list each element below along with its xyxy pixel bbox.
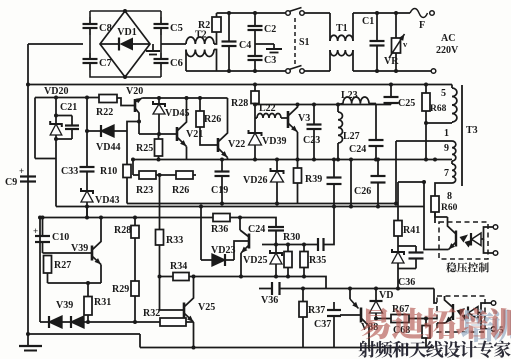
junction R25 bottom <box>157 158 161 162</box>
resistor R10 <box>126 131 128 165</box>
node row wire y104 <box>255 104 297 106</box>
svg-text:R22: R22 <box>96 107 113 118</box>
bus D wire y276 <box>160 276 174 278</box>
junction VD20 top <box>54 96 58 100</box>
resistor R26 <box>199 98 201 111</box>
resistor R25 <box>158 134 160 139</box>
capacitor C5 <box>160 17 162 24</box>
junction VR bottom <box>394 69 398 73</box>
svg-text:R35: R35 <box>309 255 326 266</box>
resistor R30 <box>287 245 289 252</box>
inductor L23 <box>338 104 343 105</box>
junction x87 lineC <box>85 216 89 220</box>
junction x133 <box>131 158 135 162</box>
junction x87 bus97 <box>85 96 89 100</box>
junction R33 bottom <box>158 275 162 279</box>
svg-text:VD25: VD25 <box>243 255 267 266</box>
junction VD26 bottom <box>275 202 279 206</box>
opto1 terminal top <box>493 225 498 230</box>
svg-text:R33: R33 <box>166 235 183 246</box>
svg-text:R31: R31 <box>94 297 111 308</box>
diode VD <box>375 289 377 302</box>
resistor R66 <box>425 319 427 326</box>
optocoupler U2 LED arrows <box>457 308 466 316</box>
capacitor C8 <box>89 17 91 24</box>
wire drop x35 <box>34 98 36 159</box>
junction R28b top <box>133 216 137 220</box>
transformer T3 winding 5-1 <box>451 85 453 89</box>
junction C2 top <box>253 11 257 15</box>
wire busD drop to row288 <box>304 277 326 289</box>
watermark dark text <box>358 341 510 358</box>
junction C24b bottom <box>274 243 278 247</box>
svg-text:C9: C9 <box>5 177 17 188</box>
junction VD44 left <box>85 129 89 133</box>
capacitor C4 <box>228 13 230 42</box>
wire opto1 diode to terminals <box>481 227 493 239</box>
junction x426 bus161 <box>424 158 428 162</box>
zener diode VD43 <box>81 191 93 202</box>
wire C36 pair bottom <box>398 268 416 270</box>
svg-text:R28: R28 <box>114 225 131 236</box>
resistor R32 <box>186 321 194 323</box>
transformer T3 winding 9 <box>452 141 456 161</box>
capacitor C9 polarized <box>20 175 36 177</box>
svg-text:V39: V39 <box>56 300 73 311</box>
svg-text:R27: R27 <box>54 260 71 271</box>
switch S1 bottom contact left <box>286 69 291 74</box>
wire x424 segment <box>423 182 425 207</box>
junction C1 top <box>375 11 379 15</box>
wire 9-7 tap <box>451 161 453 164</box>
svg-text:R10: R10 <box>100 166 117 177</box>
capacitor C10 polarized <box>42 218 44 237</box>
transistor V20 <box>117 98 135 106</box>
wire C37 top stub <box>333 301 335 303</box>
diode VD23 <box>201 259 212 261</box>
capacitor C3 <box>254 60 256 71</box>
bottom bus main y347 <box>140 347 434 349</box>
label 稳压控制 <box>446 262 456 272</box>
junction C3 bottom <box>253 69 257 73</box>
junction R23 R26 node <box>158 173 162 177</box>
resistor R60 <box>434 212 436 223</box>
junction VD43 bottom lineB <box>85 205 89 209</box>
wire ladder x87 <box>86 98 88 168</box>
wire base row V39 <box>43 252 93 254</box>
wire R36 right to V24 collector <box>239 218 241 231</box>
svg-text:5: 5 <box>441 88 446 99</box>
resistor R2 <box>216 13 218 17</box>
wire opto2 feed top <box>434 289 437 304</box>
junction VD25 bottom <box>274 275 278 279</box>
switch S1 bottom contact right <box>300 69 305 74</box>
svg-text:R30: R30 <box>283 232 300 243</box>
varistor VR <box>395 13 397 38</box>
junction R39 top <box>296 158 300 162</box>
capacitor C25 <box>390 85 392 98</box>
junction R36 right <box>238 216 242 220</box>
capacitor C19 <box>221 160 223 172</box>
wire to ground between C2 C3 <box>255 43 274 45</box>
svg-text:C5: C5 <box>170 23 183 34</box>
svg-text:V39: V39 <box>71 243 88 254</box>
svg-text:V36: V36 <box>261 295 278 306</box>
optocoupler U2 diode <box>469 307 479 320</box>
junction riser top <box>38 216 42 220</box>
svg-text:C7: C7 <box>99 58 112 69</box>
wire R36 left drop <box>200 207 202 218</box>
resistor R41 <box>397 182 399 221</box>
resistor R28 second <box>134 218 136 226</box>
svg-text:C25: C25 <box>398 98 415 109</box>
wire R60 into opto <box>435 212 448 217</box>
svg-text:F: F <box>419 20 425 31</box>
svg-text:C26: C26 <box>354 186 371 197</box>
wire T2 secondary left down <box>185 50 187 72</box>
junction VD39 bottom <box>253 158 257 162</box>
wire S1 to T1 bottom <box>304 70 330 72</box>
resistor R34 <box>173 273 189 281</box>
switch S1 top contact left <box>286 11 291 16</box>
switch S1 bottom blade <box>289 66 302 70</box>
svg-text:C10: C10 <box>52 232 69 243</box>
junction VD26 top <box>275 158 279 162</box>
svg-text:VD26: VD26 <box>243 175 267 186</box>
opto2 terminal top <box>491 301 496 306</box>
ground stub at bridge output <box>152 44 154 51</box>
svg-text:VD1: VD1 <box>117 27 136 38</box>
junction R31 top <box>86 281 90 285</box>
svg-text:220V: 220V <box>436 45 459 56</box>
svg-text:R41: R41 <box>403 225 420 236</box>
svg-text:R26: R26 <box>172 185 189 196</box>
wire T3 pin7 bottom to R60 <box>435 183 452 196</box>
wire lineB into opto <box>424 207 439 250</box>
resistor R27 <box>47 273 49 283</box>
svg-text:V20: V20 <box>126 86 143 97</box>
fuse F <box>410 9 428 18</box>
wire R33 column <box>159 175 161 230</box>
mid bus wire y161 <box>133 159 452 161</box>
wire R36 to C24b top <box>240 218 276 228</box>
wire S1 to T1 top <box>304 12 330 14</box>
sub-bus wire y98 <box>143 97 228 99</box>
junction C4 top <box>227 11 231 15</box>
line A wire y205 <box>127 203 396 205</box>
svg-text:VD20: VD20 <box>44 86 68 97</box>
resistor R29 <box>134 296 136 322</box>
junction x334 top <box>332 158 336 162</box>
zener diode VD39 <box>254 118 256 133</box>
junction R26 top <box>198 96 202 100</box>
junction R68 top <box>424 83 428 87</box>
junction C36 row288 <box>396 287 400 291</box>
svg-text:VR: VR <box>384 56 399 67</box>
capacitor inline row244 <box>317 238 319 251</box>
wire opto2 feed bottom <box>426 318 437 320</box>
wire x396 down to lineA <box>395 141 397 204</box>
junction C25 top <box>389 83 393 87</box>
junction V25 emitter bus <box>192 346 196 350</box>
wire opto2 diode to terminals <box>478 303 491 313</box>
junction V20 collector node <box>137 120 141 124</box>
diode V39b <box>62 321 71 323</box>
junction left frame bus2 <box>26 83 30 87</box>
junction bridge bottom <box>123 75 127 79</box>
transistor V25 <box>183 303 186 318</box>
bottom bus left y334 <box>28 333 140 335</box>
junction x396 lineA end <box>394 202 398 206</box>
junction L22 left <box>253 103 257 107</box>
wire x133 stub <box>132 160 134 176</box>
row wire y244 <box>262 244 318 246</box>
junction tap bus161 <box>433 158 437 162</box>
watermark red text <box>361 308 511 340</box>
junction x334 lineB <box>332 205 336 209</box>
optocoupler U1 diode <box>472 233 482 246</box>
diode VD44 <box>87 130 101 132</box>
capacitor C21 <box>71 116 73 126</box>
capacitor C33 <box>80 166 95 168</box>
svg-text:VD: VD <box>379 290 393 301</box>
junction C10 top <box>41 216 45 220</box>
junction C23 top <box>312 103 316 107</box>
svg-text:C23: C23 <box>303 135 320 146</box>
optocoupler U1 LED arrows <box>460 235 469 243</box>
zener diode VD25 <box>275 245 277 254</box>
transformer T3 core <box>461 85 463 186</box>
svg-text:VD43: VD43 <box>95 195 119 206</box>
capacitor C37 <box>333 302 335 310</box>
zener diode VD45 <box>158 98 160 104</box>
svg-text:V22: V22 <box>228 139 245 150</box>
junction C24 bottom <box>374 158 378 162</box>
junction x351 top <box>349 158 353 162</box>
wire T2 primary right up to R2 <box>214 37 217 45</box>
svg-text:7: 7 <box>444 168 449 179</box>
row wire y175 <box>133 174 139 176</box>
svg-text:C3: C3 <box>264 55 276 66</box>
bridge rectifier VD1 diamond <box>100 11 150 77</box>
resistor R37 <box>302 289 304 302</box>
svg-text:VD23: VD23 <box>211 245 235 256</box>
junction L23 left node <box>336 103 340 107</box>
svg-text:VD39: VD39 <box>262 136 286 147</box>
svg-text:C24: C24 <box>248 224 265 235</box>
svg-text:AC: AC <box>441 33 455 44</box>
wire VD20 chain to lineB <box>55 159 57 207</box>
resistor R36 <box>201 217 213 219</box>
opto1 terminal bottom <box>493 251 498 256</box>
resistor R23 <box>139 171 156 179</box>
wire C33 to VD43 <box>86 172 88 192</box>
junction VD45 bottom node <box>157 132 161 136</box>
optocoupler U2 phototransistor <box>452 304 454 320</box>
junction V3 collector <box>296 103 300 107</box>
optocoupler U1 dashed box <box>439 222 488 259</box>
junction VD45 top <box>157 96 161 100</box>
sub bus wire y97 <box>35 97 99 99</box>
switch S1 top blade <box>289 8 302 12</box>
junction R67 right <box>424 317 428 321</box>
junction R35 top <box>302 243 306 247</box>
junction VR top <box>394 11 398 15</box>
svg-text:VD44: VD44 <box>96 142 120 153</box>
wire C2-C3 link <box>254 30 256 56</box>
svg-text:R28: R28 <box>231 98 248 109</box>
wire T2 secondary right down <box>214 50 217 72</box>
optocoupler U2 dashed box <box>437 296 485 332</box>
junction x351 bottom <box>349 205 353 209</box>
wire x87 lineB to lineC <box>86 207 88 218</box>
main bus wire y84 <box>28 84 452 86</box>
svg-text:V25: V25 <box>198 302 215 313</box>
AC terminal bottom <box>431 69 436 74</box>
junction C21 bottom <box>54 137 58 141</box>
svg-text:1: 1 <box>444 128 449 139</box>
row wire y288 <box>259 288 272 290</box>
svg-text:R32: R32 <box>143 308 160 319</box>
capacitor V36 inline <box>271 282 273 295</box>
svg-text:L23: L23 <box>341 90 358 101</box>
svg-text:R34: R34 <box>170 261 187 272</box>
wire bridge to T2 primary <box>161 43 186 45</box>
transformer T1 winding bottom <box>329 50 331 71</box>
bottom bus step <box>139 334 141 348</box>
capacitor C23 <box>313 105 315 125</box>
capacitor C36 <box>415 246 417 253</box>
junction ground node <box>26 332 30 336</box>
svg-text:+: + <box>19 166 24 176</box>
transistor V39 <box>91 246 94 261</box>
transistor V22 <box>217 138 220 152</box>
svg-text:C33: C33 <box>61 166 78 177</box>
resistor R28 <box>254 85 256 92</box>
line C wire y217 <box>40 217 201 219</box>
ground symbol near C2 C3 <box>273 44 275 49</box>
junction R36 left <box>199 205 203 209</box>
svg-text:T1: T1 <box>336 23 348 34</box>
wire x127 drop <box>127 122 139 132</box>
transformer T1 winding top <box>329 13 331 41</box>
transistor V21 <box>176 127 179 141</box>
transformer T3 winding 7 <box>452 164 456 183</box>
junction V39 collector lineC <box>99 216 103 220</box>
svg-text:T3: T3 <box>466 125 478 136</box>
junction R29 bottom <box>133 320 137 324</box>
wire V25 base drop <box>159 277 161 311</box>
svg-text:V3: V3 <box>298 113 310 124</box>
wire T3 pin9 top <box>396 140 452 142</box>
resistor R35 <box>303 245 305 252</box>
line B wire y208 <box>56 206 424 208</box>
transistor V38 <box>360 308 363 323</box>
svg-text:L27: L27 <box>343 131 360 142</box>
capacitor C24 <box>375 104 377 141</box>
capacitor C6 <box>160 53 162 59</box>
svg-text:+: + <box>33 226 38 236</box>
svg-text:R25: R25 <box>136 143 153 154</box>
svg-text:R39: R39 <box>305 174 322 185</box>
junction R28 top <box>253 83 257 87</box>
wire x351 <box>350 160 352 207</box>
capacitor C2 <box>254 13 256 26</box>
junction C4 bottom <box>227 69 231 73</box>
junction VD top <box>374 287 378 291</box>
svg-text:C37: C37 <box>314 319 331 330</box>
inductor L27 <box>337 105 339 113</box>
resistor R33 <box>159 245 161 277</box>
row wire y322 to R32 <box>88 321 160 323</box>
junction C19 top <box>220 158 224 162</box>
opto2 terminal bottom <box>491 327 496 332</box>
wire C36 pair top <box>398 245 416 247</box>
junction L27 bottom <box>336 158 340 162</box>
junction V25 collector <box>192 275 196 279</box>
wire riser x334 row244 <box>324 207 335 245</box>
inductor L22 <box>257 114 281 118</box>
junction R30 bottom <box>286 275 290 279</box>
wire C21 loop top <box>56 115 72 117</box>
capacitor small x334 <box>333 160 335 178</box>
svg-text:C1: C1 <box>362 16 374 27</box>
resistor R26 horizontal <box>176 171 193 179</box>
capacitor C24 second <box>275 231 277 245</box>
resistor R67 <box>376 318 391 320</box>
transformer T2 primary winding <box>186 37 214 44</box>
junction bridge top <box>123 9 127 13</box>
junction C1 bottom <box>375 69 379 73</box>
capacitor C26 <box>377 160 379 177</box>
svg-text:R26: R26 <box>204 114 221 125</box>
watermark blue text <box>461 309 511 342</box>
junction V38 emitter top <box>348 287 352 291</box>
resistor R31 <box>87 283 89 297</box>
resistor R22 <box>99 95 117 103</box>
switch S1 dashed link <box>294 18 296 65</box>
svg-text:C6: C6 <box>170 58 183 69</box>
svg-text:C4: C4 <box>239 40 251 51</box>
diode VD1 symbol <box>100 43 119 45</box>
junction R30 top <box>286 243 290 247</box>
junction V21 collector bus <box>185 96 189 100</box>
capacitor C1 <box>376 13 378 41</box>
svg-text:R36: R36 <box>211 224 228 235</box>
svg-text:C24: C24 <box>349 144 366 155</box>
svg-text:C8: C8 <box>99 23 112 34</box>
zener diode VD20 <box>55 98 57 125</box>
zener diode VD26 <box>276 160 278 172</box>
wire stub y158 <box>35 158 56 160</box>
AC terminal top <box>430 11 435 16</box>
bridge enclosure box <box>90 11 161 77</box>
wire VD23 left drop <box>200 218 202 261</box>
top bus wire y13 <box>217 12 288 14</box>
junction C23 bottom <box>312 158 316 162</box>
junction pin1 R68 <box>424 121 428 125</box>
diode V39a <box>40 321 49 323</box>
junction R35 bottom <box>302 275 306 279</box>
zener diode above C36 <box>397 246 399 252</box>
svg-text:8: 8 <box>447 191 452 202</box>
wire R26 to V22 base <box>200 127 218 145</box>
junction C21 top <box>54 114 58 118</box>
wire T1 to AC bottom <box>353 70 431 72</box>
svg-text:R60: R60 <box>441 203 458 213</box>
svg-text:9: 9 <box>444 143 449 154</box>
bottom bus wire y71 <box>186 70 287 72</box>
